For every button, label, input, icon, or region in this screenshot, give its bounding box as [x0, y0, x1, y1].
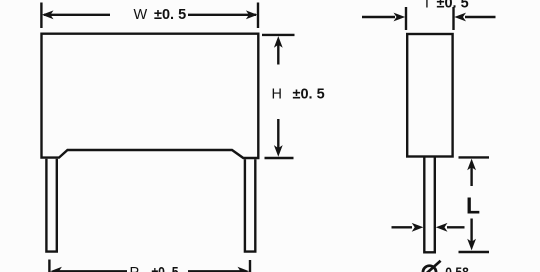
svg-text:H: H — [272, 87, 282, 103]
capacitor body side view — [407, 34, 452, 157]
lead left front view — [46, 159, 56, 252]
lead diameter arrowhead right-pointing — [412, 223, 424, 232]
H dimension extension line top — [262, 34, 295, 36]
capacitor body front view — [42, 34, 259, 158]
L dimension arrow stem up — [470, 166, 472, 186]
svg-text:±0. 5: ±0. 5 — [154, 7, 186, 23]
W dimension extension line right — [257, 3, 259, 29]
P dimension extension tick right — [249, 260, 251, 272]
T dimension arrow line right — [465, 16, 496, 18]
svg-text:±0. 5: ±0. 5 — [152, 265, 179, 272]
H dimension arrow stem down — [277, 119, 279, 149]
H dimension extension line bottom — [265, 157, 294, 159]
P dimension extension tick left — [48, 260, 50, 272]
svg-text:±0. 5: ±0. 5 — [437, 0, 469, 11]
T dimension extension tick left — [405, 7, 407, 30]
H dimension arrow stem up — [277, 44, 279, 65]
W dimension arrowhead right — [246, 10, 258, 19]
lead diameter arrowhead left-pointing — [436, 223, 448, 232]
W dimension line right segment — [188, 14, 256, 16]
T dimension arrowhead left-pointing — [454, 13, 466, 22]
L dimension extension line top — [459, 156, 490, 158]
lead side view — [424, 158, 435, 253]
T dimension arrow line left — [362, 16, 395, 18]
svg-text:L: L — [466, 193, 480, 219]
lead diameter arrow line right — [447, 226, 465, 228]
H dimension arrowhead up — [274, 36, 283, 48]
T dimension arrowhead right-pointing — [394, 13, 406, 22]
diameter symbol slash — [422, 261, 441, 272]
svg-text:T: T — [423, 0, 432, 11]
svg-text:±0. 5: ±0. 5 — [293, 87, 325, 103]
P dimension line left segment — [58, 270, 127, 272]
svg-text:0.58: 0.58 — [445, 264, 469, 272]
W dimension arrowhead left — [42, 10, 54, 19]
diameter symbol circle — [423, 266, 436, 272]
P dimension arrowhead right — [238, 267, 250, 272]
P dimension arrowhead left — [50, 267, 62, 272]
lead right front view — [245, 159, 255, 251]
T dimension extension tick right — [452, 7, 454, 30]
L dimension arrow stem down — [470, 219, 472, 244]
svg-text:W: W — [134, 7, 148, 23]
H dimension arrowhead down — [274, 145, 283, 157]
W dimension extension line left — [40, 3, 42, 29]
svg-text:P: P — [130, 265, 140, 272]
W dimension line left segment — [44, 14, 110, 16]
L dimension arrowhead up — [467, 159, 476, 171]
L dimension extension line bottom — [459, 251, 490, 253]
P dimension line right segment — [188, 270, 241, 272]
lead diameter arrow line left — [392, 226, 413, 228]
L dimension arrowhead down — [467, 239, 476, 251]
